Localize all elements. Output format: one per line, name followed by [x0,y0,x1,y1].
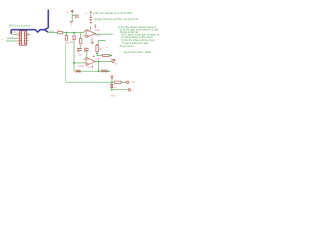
wire R2 bottom [97,52,102,56]
svg-text:R1: R1 [58,30,60,32]
wire net D [112,88,128,90]
wire chain2 long drop [73,40,75,72]
ground stack1 [70,22,73,23]
trimmer RT1 [112,59,115,62]
wire C5 bottom lead [86,51,88,57]
connector JP1 pads [20,33,25,44]
svg-text:8) gnd return: 8) gnd return [120,45,135,48]
junction node6 [98,60,100,62]
svg-text:IC1B: IC1B [95,58,100,60]
resistor R4 vertical [65,36,67,41]
wire IC1B in- [84,58,86,60]
wire chain1 drop [65,33,67,36]
wire to op2 plus [74,62,86,64]
wire chain3 to cap [80,46,82,48]
svg-text:2x4C can saturate up C 4k for: 2x4C can saturate up C 4k for MIDI [93,12,132,15]
wire JP1 low [6,40,18,42]
wire to pin1 [121,81,126,83]
capacitor C4 [78,48,82,53]
resistor R7 vertical [80,38,82,43]
IC1B power top [93,56,95,58]
junction node2 [73,32,75,34]
wire JP1 right stub [27,33,30,35]
op-amp IC1B [86,57,95,65]
capacitor C2 [89,18,92,22]
junction node3 [73,62,75,64]
diode D2 [102,70,106,73]
supply mark [94,26,96,28]
wire IC1B output [95,60,112,62]
wire feedback top [98,41,105,46]
diode D4 [110,84,113,87]
supply tick green [94,24,96,25]
junction node1 [65,32,67,34]
wire net A [48,32,84,34]
junction node9 [111,81,113,83]
IC1B power bottom [91,65,93,68]
wire chain3 drop [80,33,82,39]
diode D1 [77,70,81,73]
ground stack2 [90,22,92,23]
wire IC1A in- [84,35,86,37]
junction node5 [110,55,112,57]
junction node8 [107,70,109,72]
wire IC1A in+ [84,30,86,32]
svg-text:1: 1 [95,28,96,30]
capacitor C5 [85,48,89,53]
op-amp IC1A input marks [87,31,89,36]
svg-text:OUT: OUT [131,82,136,84]
svg-text:MIDI input interface: MIDI input interface [9,24,31,27]
wire output down [98,61,100,71]
resistor R5 vertical [73,36,75,39]
wire JP1 mid [7,37,18,39]
wire D3 to net C [111,79,113,83]
wire chain2 drop [73,33,75,36]
junction node4 [96,53,98,55]
resistor R6 [115,81,121,83]
resistor R3 [103,54,110,56]
IC1A power pin top [90,27,92,30]
junction node10 [111,89,113,91]
diode D3 [111,76,113,79]
wire JP1 pin top [13,33,18,35]
svg-text:P1: P1 [110,59,112,61]
wire stack1 [72,12,75,22]
wire stack2 [90,13,92,17]
pin P1 [126,81,128,83]
svg-text:1M: 1M [99,49,102,51]
svg-text:GND: GND [111,96,116,98]
svg-text:1N4148: 1N4148 [77,66,85,68]
pin P2 [128,89,130,91]
svg-text:TL072: TL072 [87,67,94,69]
svg-text:D4: D4 [114,87,116,89]
notes block [118,26,160,54]
wire R3 right stub [109,55,111,57]
supply stack2 plus [90,11,92,13]
small tick [85,12,86,14]
svg-text:keep traces short - audio: keep traces short - audio [124,51,151,54]
op-amp IC1A [86,30,95,38]
IC1A power pin bottom [91,38,93,43]
svg-text:(acidly) (dirtyice) and filter: (acidly) (dirtyice) and filter out the 5… [94,18,139,21]
svg-text:TL072: TL072 [94,35,101,37]
wire net C [66,81,126,83]
R2 top pin mark [96,44,98,46]
op-amp IC1B input marks [87,59,89,64]
wire net B [74,70,110,72]
connector JP1 body [20,31,27,45]
wire IC1A output [95,33,112,35]
connector JP1 pin stubs [18,33,29,43]
wire chain1 long drop [65,44,68,82]
capacitor C1 [76,14,80,18]
resistor R1 [58,31,63,33]
junction node7 [98,70,100,72]
supply stack1 VCC [71,10,74,12]
svg-text:10k: 10k [115,64,118,66]
svg-text:7: 7 [94,64,95,66]
bus B1 [11,10,48,33]
ground IC1A [91,42,94,43]
wire net C to D [111,82,113,84]
resistor R2 vertical [96,45,98,52]
